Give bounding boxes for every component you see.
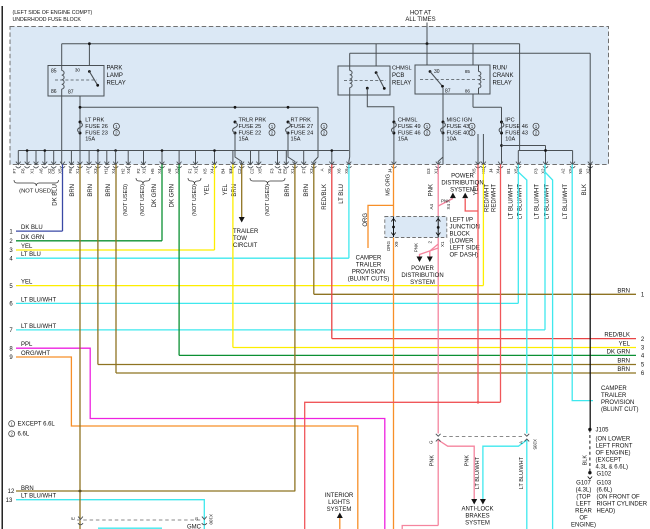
- svg-text:PNK: PNK: [428, 184, 434, 196]
- svg-text:(NOT USED): (NOT USED): [123, 184, 129, 216]
- svg-text:PROVISION: PROVISION: [352, 270, 385, 276]
- svg-text:DK GRN: DK GRN: [21, 235, 44, 241]
- svg-text:ENGINE): ENGINE): [571, 523, 596, 529]
- svg-text:G102: G102: [597, 472, 612, 478]
- svg-text:SYSTEM: SYSTEM: [465, 521, 490, 527]
- svg-text:X1: X1: [141, 168, 146, 174]
- svg-text:G: G: [429, 440, 434, 444]
- svg-text:INTERIOR: INTERIOR: [325, 493, 354, 499]
- svg-text:X5: X5: [258, 168, 263, 174]
- svg-text:LEFT I/P: LEFT I/P: [450, 218, 474, 224]
- svg-text:A: A: [320, 168, 325, 171]
- svg-text:4.3L & 6.6L): 4.3L & 6.6L): [596, 465, 628, 471]
- svg-text:RIGHT CYLINDER: RIGHT CYLINDER: [597, 502, 648, 508]
- svg-text:LT PRK: LT PRK: [85, 117, 104, 123]
- svg-text:C2: C2: [250, 168, 255, 174]
- svg-text:RELAY: RELAY: [107, 81, 126, 87]
- svg-text:15A: 15A: [85, 137, 95, 143]
- svg-text:X1: X1: [30, 168, 35, 174]
- svg-text:PPL: PPL: [21, 342, 33, 348]
- svg-text:GMC: GMC: [187, 525, 202, 529]
- svg-text:DK GRN: DK GRN: [169, 184, 175, 207]
- svg-text:A6: A6: [38, 168, 43, 174]
- svg-text:G103: G103: [597, 481, 612, 487]
- svg-text:30: 30: [75, 68, 81, 73]
- svg-text:(LOWER: (LOWER: [450, 239, 475, 245]
- svg-text:SYSTEM: SYSTEM: [410, 280, 435, 286]
- svg-text:(ON FRONT OF: (ON FRONT OF: [597, 495, 641, 501]
- svg-text:G: G: [194, 517, 199, 521]
- svg-text:BRN: BRN: [617, 288, 630, 294]
- svg-text:MISC IGN: MISC IGN: [447, 117, 472, 123]
- svg-text:CRANK: CRANK: [493, 73, 514, 79]
- svg-text:BRN: BRN: [70, 184, 76, 197]
- svg-text:(BLUNT CUT): (BLUNT CUT): [601, 407, 639, 413]
- svg-text:87: 87: [68, 90, 74, 96]
- svg-text:IPC: IPC: [505, 117, 514, 123]
- svg-text:X3: X3: [230, 168, 235, 174]
- svg-text:TRAILER: TRAILER: [601, 393, 627, 399]
- svg-text:HOT AT: HOT AT: [410, 11, 431, 17]
- svg-text:M5 ORG: M5 ORG: [386, 174, 392, 196]
- svg-text:PARK: PARK: [107, 66, 123, 72]
- svg-text:PNK: PNK: [465, 455, 471, 467]
- svg-text:TOW: TOW: [233, 236, 247, 242]
- svg-text:YEL: YEL: [21, 280, 33, 286]
- svg-text:LT BLU/WHT: LT BLU/WHT: [563, 184, 569, 219]
- svg-text:(6.6L): (6.6L): [597, 488, 613, 494]
- svg-text:LT BLU: LT BLU: [339, 184, 345, 204]
- svg-text:X205: X205: [533, 439, 538, 450]
- svg-text:DK BLU: DK BLU: [21, 225, 43, 231]
- svg-text:(NOT USED): (NOT USED): [192, 184, 198, 216]
- svg-text:BRN: BRN: [617, 367, 630, 373]
- svg-text:FUSE 26: FUSE 26: [85, 124, 108, 130]
- svg-text:X6: X6: [337, 168, 342, 174]
- svg-text:15A: 15A: [239, 137, 249, 143]
- svg-text:P3: P3: [533, 168, 538, 174]
- svg-text:15A: 15A: [291, 137, 301, 143]
- svg-text:15A: 15A: [398, 137, 408, 143]
- svg-text:PROVISION: PROVISION: [601, 400, 634, 406]
- svg-text:RT PRK: RT PRK: [291, 117, 312, 123]
- svg-text:K5: K5: [202, 168, 207, 174]
- svg-text:RELAY: RELAY: [493, 81, 512, 87]
- svg-text:LT BLU/WHT: LT BLU/WHT: [21, 324, 56, 330]
- svg-text:E: E: [71, 517, 76, 520]
- svg-text:CHMSL: CHMSL: [392, 66, 412, 72]
- svg-text:G107: G107: [576, 481, 591, 487]
- svg-text:F3: F3: [270, 168, 275, 174]
- svg-text:X100: X100: [209, 514, 214, 525]
- svg-text:F7: F7: [12, 168, 17, 174]
- svg-text:BRN: BRN: [106, 184, 112, 197]
- svg-text:BLK: BLK: [583, 455, 589, 466]
- svg-text:TRAILER: TRAILER: [233, 229, 259, 235]
- svg-text:FUSE 49: FUSE 49: [398, 124, 421, 130]
- svg-text:POWER: POWER: [411, 266, 434, 272]
- svg-text:X1: X1: [193, 168, 198, 174]
- svg-text:85: 85: [465, 69, 471, 74]
- svg-text:REAR: REAR: [575, 509, 592, 515]
- svg-text:J105: J105: [596, 428, 610, 434]
- svg-text:6.6L: 6.6L: [18, 432, 30, 438]
- svg-text:OF DASH): OF DASH): [450, 253, 479, 259]
- svg-text:X4: X4: [111, 168, 116, 174]
- svg-text:RED/WHT: RED/WHT: [492, 184, 498, 212]
- svg-text:BLK: BLK: [582, 184, 588, 195]
- svg-text:DK GRN: DK GRN: [607, 349, 630, 355]
- svg-text:A2: A2: [560, 168, 565, 174]
- svg-text:LEFT: LEFT: [576, 502, 591, 508]
- svg-text:RED/WHT: RED/WHT: [485, 184, 491, 212]
- svg-text:CIRCUIT: CIRCUIT: [233, 243, 258, 249]
- svg-text:X4: X4: [126, 168, 131, 174]
- svg-text:BRAKES: BRAKES: [465, 514, 489, 520]
- svg-text:YEL: YEL: [205, 183, 211, 195]
- svg-text:F8: F8: [68, 168, 73, 174]
- svg-text:LT BLU/WHT: LT BLU/WHT: [475, 456, 481, 489]
- svg-text:FUSE 27: FUSE 27: [291, 124, 314, 130]
- svg-text:LT BLU/WHT: LT BLU/WHT: [21, 494, 56, 500]
- svg-text:(LEFT SIDE OF ENGINE COMPT): (LEFT SIDE OF ENGINE COMPT): [13, 10, 93, 16]
- svg-text:(ON LOWER: (ON LOWER: [596, 437, 631, 443]
- svg-text:LAMP: LAMP: [107, 73, 123, 79]
- svg-text:12: 12: [8, 489, 15, 495]
- svg-text:X9: X9: [394, 241, 399, 247]
- svg-text:POWER: POWER: [451, 174, 474, 180]
- svg-text:85: 85: [51, 69, 57, 75]
- svg-text:(NOT USED): (NOT USED): [19, 189, 53, 195]
- svg-text:B1: B1: [506, 168, 511, 174]
- svg-text:X4: X4: [446, 204, 451, 210]
- svg-text:F7: F7: [302, 168, 307, 174]
- svg-text:F1: F1: [188, 168, 193, 174]
- svg-text:J4: J4: [488, 168, 493, 173]
- svg-text:ORG/WHT: ORG/WHT: [21, 351, 50, 357]
- svg-text:FUSE 43: FUSE 43: [447, 124, 470, 130]
- svg-text:RELAY: RELAY: [392, 81, 411, 87]
- svg-text:BRN: BRN: [617, 359, 630, 365]
- svg-text:A: A: [519, 441, 524, 444]
- svg-text:BRN: BRN: [21, 486, 34, 492]
- svg-text:B4: B4: [221, 168, 226, 174]
- svg-text:DK BLU: DK BLU: [53, 184, 59, 206]
- svg-text:30: 30: [434, 69, 440, 75]
- svg-text:F4: F4: [278, 168, 283, 174]
- svg-text:A7: A7: [86, 168, 91, 174]
- svg-text:H2: H2: [121, 168, 126, 174]
- svg-text:10A: 10A: [505, 137, 515, 143]
- svg-text:ORG: ORG: [363, 213, 369, 227]
- svg-text:CHMSL: CHMSL: [398, 117, 418, 123]
- svg-text:LEFT SIDE: LEFT SIDE: [450, 246, 480, 252]
- svg-text:OF: OF: [579, 516, 588, 522]
- svg-text:13: 13: [6, 498, 13, 504]
- svg-text:PNK: PNK: [441, 198, 450, 203]
- svg-text:PCB: PCB: [392, 73, 404, 79]
- svg-text:(NOT USED): (NOT USED): [265, 184, 271, 216]
- svg-text:86: 86: [465, 89, 471, 94]
- svg-text:PNK: PNK: [429, 455, 435, 467]
- svg-text:X1: X1: [440, 241, 445, 247]
- svg-text:(BLUNT CUTS): (BLUNT CUTS): [348, 277, 390, 283]
- svg-text:PNK: PNK: [414, 243, 419, 252]
- svg-text:G3: G3: [426, 168, 431, 174]
- svg-text:EXCEPT 6.6L: EXCEPT 6.6L: [18, 422, 56, 428]
- svg-text:UNDERHOOD FUSE BLOCK: UNDERHOOD FUSE BLOCK: [13, 17, 82, 23]
- svg-text:LEFT FRONT: LEFT FRONT: [596, 444, 633, 450]
- svg-text:C8: C8: [50, 168, 55, 174]
- svg-text:LT BLU/WHT: LT BLU/WHT: [21, 297, 56, 303]
- svg-text:LT BLU/WHT: LT BLU/WHT: [509, 184, 515, 219]
- svg-text:LT BLU/WHT: LT BLU/WHT: [519, 456, 525, 489]
- svg-text:LT BLU/WHT: LT BLU/WHT: [535, 184, 541, 219]
- svg-text:FUSE 25: FUSE 25: [239, 124, 262, 130]
- svg-text:A8: A8: [167, 168, 172, 174]
- svg-text:E5: E5: [283, 168, 288, 174]
- svg-text:BRN: BRN: [285, 184, 291, 197]
- svg-text:BLOCK: BLOCK: [450, 232, 470, 238]
- svg-text:10A: 10A: [447, 137, 457, 143]
- svg-text:SYSTEM: SYSTEM: [327, 507, 352, 513]
- svg-text:YEL: YEL: [619, 342, 631, 348]
- svg-text:F6: F6: [21, 168, 26, 174]
- svg-text:N5: N5: [578, 168, 583, 174]
- svg-text:J4: J4: [387, 168, 392, 173]
- svg-text:ORG: ORG: [386, 241, 391, 252]
- svg-text:DISTRIBUTION: DISTRIBUTION: [441, 181, 483, 187]
- svg-text:(NOT USED): (NOT USED): [140, 184, 146, 216]
- svg-text:LT BLU: LT BLU: [21, 252, 41, 258]
- svg-text:F2: F2: [136, 168, 141, 174]
- svg-text:CAMPER: CAMPER: [601, 386, 627, 392]
- svg-text:CAMPER: CAMPER: [356, 256, 382, 262]
- svg-text:OF ENGINE): OF ENGINE): [596, 451, 631, 457]
- svg-text:(4.3L): (4.3L): [576, 488, 592, 494]
- svg-text:86: 86: [51, 89, 57, 95]
- svg-text:(EXCEPT: (EXCEPT: [596, 458, 622, 464]
- svg-text:YEL: YEL: [21, 244, 33, 250]
- svg-text:H1: H1: [103, 168, 108, 174]
- svg-text:H5: H5: [150, 168, 155, 174]
- svg-text:A4: A4: [429, 204, 434, 210]
- svg-text:DISTRIBUTION: DISTRIBUTION: [401, 273, 443, 279]
- svg-text:BRN: BRN: [88, 184, 94, 197]
- svg-text:SYSTEM: SYSTEM: [450, 188, 475, 194]
- svg-text:YEL: YEL: [223, 183, 229, 195]
- svg-text:HEAD): HEAD): [597, 509, 616, 515]
- svg-text:RED/BLK: RED/BLK: [604, 333, 630, 339]
- svg-text:ALL TIMES: ALL TIMES: [405, 17, 435, 23]
- svg-text:BRN: BRN: [304, 184, 310, 197]
- svg-text:TRAILER: TRAILER: [356, 263, 382, 269]
- svg-text:TRLR PRK: TRLR PRK: [239, 117, 267, 123]
- svg-text:LIGHTS: LIGHTS: [328, 500, 350, 506]
- svg-text:RED/BLK: RED/BLK: [322, 184, 328, 210]
- svg-text:DK GRN: DK GRN: [152, 184, 158, 207]
- svg-text:JUNCTION: JUNCTION: [450, 225, 480, 231]
- svg-text:RUN/: RUN/: [493, 66, 508, 72]
- svg-text:87: 87: [445, 89, 451, 95]
- svg-text:FUSE 46: FUSE 46: [505, 124, 528, 130]
- svg-text:ANTI-LOCK: ANTI-LOCK: [461, 507, 493, 513]
- svg-text:(TOP: (TOP: [576, 495, 590, 501]
